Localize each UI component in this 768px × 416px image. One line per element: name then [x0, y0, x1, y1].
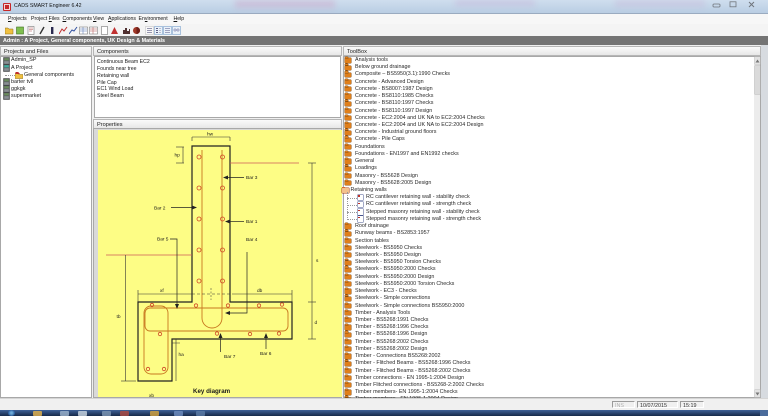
- svg-text:s: s: [316, 259, 319, 264]
- svg-text:xf: xf: [160, 288, 164, 294]
- properties panel: [93, 119, 342, 129]
- left panel: [0, 46, 92, 56]
- tree connector: [347, 192, 348, 218]
- svg-text:d: d: [315, 320, 318, 326]
- svg-text:Bar 7: Bar 7: [224, 354, 236, 360]
- svg-text:ha: ha: [179, 352, 185, 358]
- svg-text:Bar 4: Bar 4: [246, 237, 258, 243]
- svg-text:Bar 2: Bar 2: [154, 206, 166, 212]
- svg-text:hw: hw: [207, 132, 214, 138]
- svg-text:Key diagram: Key diagram: [193, 388, 231, 395]
- toolbox scrollbar: [754, 57, 760, 397]
- svg-text:xb: xb: [149, 393, 154, 397]
- components panel: [93, 46, 342, 56]
- svg-text:Bar 1: Bar 1: [246, 219, 258, 225]
- taskbar: [0, 410, 768, 416]
- svg-text:Bar 6: Bar 6: [260, 351, 272, 357]
- svg-text:Bar 3: Bar 3: [246, 175, 258, 181]
- right window strip: [761, 45, 768, 399]
- svg-text:tb: tb: [117, 314, 121, 320]
- svg-text:db: db: [257, 288, 263, 294]
- svg-text:Bar 5: Bar 5: [157, 237, 169, 243]
- svg-text:hp: hp: [175, 153, 181, 159]
- toolbox panel: [343, 46, 761, 56]
- status bar: [0, 398, 768, 411]
